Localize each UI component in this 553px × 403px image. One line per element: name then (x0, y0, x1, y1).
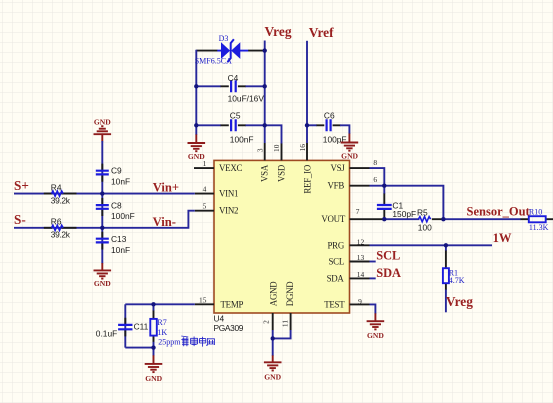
svg-text:VOUT: VOUT (321, 214, 345, 224)
resistor R7 column upper (153, 304, 155, 311)
capacitor C1 pin segments (383, 194, 385, 220)
resistor R4 zigzag (52, 191, 64, 196)
U4 pin 4 stub (195, 193, 214, 195)
svg-text:SDA: SDA (327, 273, 345, 283)
junction C1 bottom / VOUT row (382, 217, 386, 221)
svg-text:Vin-: Vin- (153, 215, 176, 229)
svg-text:GND: GND (145, 374, 162, 383)
U4 pin 8 stub (350, 167, 370, 169)
capacitor C9 plates (96, 171, 109, 175)
junction bus/Vin+ (100, 191, 104, 195)
svg-text:C5: C5 (230, 110, 241, 120)
svg-text:C13: C13 (111, 234, 127, 244)
junction VSJ/VFB node (382, 184, 386, 188)
wire D3 row right segment (248, 50, 265, 52)
U4 pin 5 stub (195, 210, 214, 212)
svg-text:GND: GND (367, 331, 384, 340)
junction VFB corner / VOUT row (441, 217, 445, 221)
svg-text:2: 2 (261, 320, 270, 324)
svg-text:9: 9 (358, 297, 362, 306)
svg-text:10nF: 10nF (111, 245, 130, 255)
svg-text:D3: D3 (219, 34, 229, 43)
svg-text:C8: C8 (111, 200, 122, 210)
resistor R6 zigzag (52, 225, 64, 230)
wire pin8 VSJ to C1 column (370, 168, 385, 186)
svg-text:100: 100 (418, 222, 432, 232)
svg-text:1K: 1K (157, 328, 167, 337)
svg-text:10nF: 10nF (111, 177, 130, 187)
wire Vref vertical to pin 16 (306, 41, 308, 143)
svg-text:GND: GND (94, 117, 111, 126)
svg-text:5: 5 (203, 202, 207, 211)
capacitor C13 pin segments (101, 232, 103, 250)
resistor R10 pin segments (521, 218, 553, 220)
resistor R7 body (150, 319, 157, 336)
resistor R7 pin segments (153, 311, 155, 343)
capacitor C5 pin segments (221, 124, 247, 126)
GND power port (top of filter bus) (94, 117, 112, 141)
svg-text:39.2k: 39.2k (51, 195, 71, 205)
junction AGND/DGND (271, 336, 275, 340)
svg-text:R7: R7 (157, 318, 166, 327)
svg-text:S+: S+ (14, 178, 29, 193)
svg-text:VIN2: VIN2 (219, 206, 238, 216)
GND power port (under C5 left branch) (188, 134, 206, 161)
svg-text:VSA: VSA (259, 164, 269, 182)
resistor R1 body (443, 268, 449, 283)
GND power port (AGND/DGND) (264, 355, 282, 381)
svg-text:8: 8 (373, 158, 377, 167)
junction C4 row / Vreg (263, 84, 267, 88)
svg-text:Vreg: Vreg (265, 24, 292, 39)
U4 pin 13 stub (350, 261, 370, 263)
svg-text:C6: C6 (324, 110, 335, 120)
svg-text:SDA: SDA (376, 266, 401, 280)
U4 pin 3 stub (264, 143, 266, 160)
U4 pin 6 stub (350, 185, 370, 187)
resistor R6 pin segments (44, 227, 77, 229)
junction D3 row / Vreg (263, 48, 267, 52)
U4 pin 12 stub (350, 244, 370, 246)
wire bottom connecting C11 to R7 (125, 347, 153, 349)
svg-text:14: 14 (357, 270, 365, 279)
svg-text:39.2k: 39.2k (51, 230, 71, 240)
capacitor C4 pin segments (221, 85, 247, 87)
svg-text:R5: R5 (417, 208, 428, 218)
op-amp U4 PGA309 body (214, 160, 350, 313)
U4 pin 10 stub (281, 143, 283, 160)
capacitor C9 pin segments (101, 164, 103, 182)
svg-text:150pF: 150pF (392, 209, 416, 219)
svg-text:C4: C4 (228, 73, 239, 83)
capacitor C1 plates (377, 205, 392, 209)
wire AGND stub lower (272, 330, 274, 356)
R7 note 25ppm precision resistor (CJK) (158, 336, 214, 347)
wire pin6 VFB row to right corner (370, 186, 444, 220)
svg-text:11: 11 (280, 320, 289, 327)
svg-text:PRG: PRG (327, 240, 344, 250)
wire pin9 TEST to GND (370, 304, 376, 313)
junction C11/R7 bottom (151, 345, 155, 349)
wire DGND stub lower + jog (273, 330, 291, 338)
svg-text:SCL: SCL (328, 257, 344, 267)
svg-text:GND: GND (188, 152, 205, 161)
U4 pin 1 stub (194, 167, 214, 169)
wire Vreg vertical to pin 3 (264, 41, 266, 144)
svg-text:GND: GND (341, 152, 358, 161)
U4 pin 11 stub (290, 313, 292, 330)
svg-text:1W: 1W (493, 231, 512, 245)
capacitor C11 plates (118, 325, 132, 329)
svg-text:7: 7 (356, 207, 360, 216)
wire left branch vertical (D3/C4/C5 left) (195, 50, 197, 135)
svg-text:25ppm: 25ppm (158, 338, 181, 347)
svg-text:R4: R4 (51, 182, 62, 192)
svg-text:Vreg: Vreg (446, 294, 473, 309)
wire S- row (14, 211, 195, 228)
U4 pin 9 stub (350, 303, 370, 305)
junction bus/Vin- (100, 226, 104, 230)
svg-text:VSD: VSD (276, 164, 286, 182)
svg-text:10uF/16V: 10uF/16V (228, 94, 265, 104)
resistor R4 pin segments (44, 193, 77, 195)
svg-text:4: 4 (203, 185, 207, 194)
U4 pin 15 stub (195, 303, 214, 305)
wire C4 row right (246, 85, 265, 87)
GND power port (under C6) (341, 134, 359, 161)
junction Vref / C6 row (305, 123, 309, 127)
svg-text:GND: GND (94, 279, 111, 288)
svg-text:DGND: DGND (285, 281, 295, 306)
GND power port (TEST) (367, 313, 385, 340)
svg-text:REF_IO: REF_IO (303, 164, 313, 193)
svg-text:VIN1: VIN1 (219, 189, 238, 199)
U4 pin 16 stub (306, 143, 308, 160)
resistor R5 zigzag (418, 217, 430, 222)
wire C1 column upper (383, 186, 385, 194)
wire R7 bottom (153, 342, 155, 356)
svg-text:VSJ: VSJ (330, 163, 345, 173)
svg-text:TEMP: TEMP (221, 300, 244, 310)
capacitor C13 plates (96, 239, 109, 243)
wire pin12 PRG row (1W) (370, 244, 493, 246)
svg-text:4.7K: 4.7K (449, 276, 465, 285)
junction C5 left / GND branch (194, 123, 198, 127)
svg-text:R10: R10 (529, 208, 542, 217)
capacitor C4 plates (231, 80, 236, 92)
GND power port (R7/C11) (145, 355, 163, 383)
resistor R1 column upper (445, 245, 447, 251)
wire VOUT row to R10 (443, 218, 521, 220)
svg-text:U4: U4 (214, 314, 225, 324)
svg-text:13: 13 (357, 253, 365, 262)
diode D3 TVS SMF6.5CA (217, 39, 248, 62)
svg-text:TEST: TEST (324, 300, 345, 310)
capacitor C6 plates (327, 119, 331, 131)
wire TEMP row (125, 303, 195, 305)
wire R1 bottom to Vreg port (445, 290, 447, 313)
junction 1W row / R1 (444, 243, 448, 247)
U4 pin 14 stub (350, 277, 370, 279)
U4 pin 7 stub (350, 218, 370, 220)
wire C6 row left (307, 124, 317, 126)
junction C5 row / Vreg (263, 123, 267, 127)
capacitor C8 pin segments (101, 198, 103, 216)
svg-text:C9: C9 (111, 166, 122, 176)
resistor R10 body (529, 216, 546, 222)
svg-text:VFB: VFB (327, 181, 344, 191)
svg-text:R6: R6 (51, 217, 62, 227)
junction TEMP row / R7 (151, 302, 155, 306)
svg-text:6: 6 (373, 175, 377, 184)
resistor R1 pin segments (445, 251, 447, 291)
capacitor C8 plates (96, 205, 109, 209)
wire S+ row to VIN1 (14, 193, 195, 195)
GND power port (bottom of filter bus) (94, 263, 112, 288)
wire C6 row right + drop to GND (340, 125, 349, 134)
svg-text:VEXC: VEXC (219, 163, 242, 173)
svg-text:AGND: AGND (268, 281, 278, 306)
wire SDA stub (370, 277, 376, 279)
resistor R5 pin segments (370, 218, 444, 220)
svg-text:S-: S- (14, 212, 26, 227)
svg-text:SMF6.5CA: SMF6.5CA (195, 56, 232, 65)
svg-text:SCL: SCL (376, 249, 400, 263)
wire SCL stub (370, 261, 376, 263)
svg-text:100nF: 100nF (111, 211, 135, 221)
svg-text:15: 15 (199, 295, 207, 304)
U4 pin 2 stub (272, 313, 274, 330)
svg-text:Sensor_Out: Sensor_Out (467, 204, 531, 218)
capacitor C5 plates (231, 119, 236, 131)
wire D3 row left segment (196, 50, 217, 52)
svg-text:GND: GND (264, 372, 281, 381)
svg-text:3: 3 (255, 148, 264, 152)
svg-text:16: 16 (298, 144, 307, 152)
wire C5 row left (196, 124, 221, 126)
svg-text:PGA309: PGA309 (214, 323, 244, 333)
svg-text:0.1uF: 0.1uF (96, 328, 117, 338)
wire C5 row right to pin10 drop (246, 125, 282, 143)
svg-text:Vref: Vref (309, 25, 334, 40)
svg-text:Vin+: Vin+ (153, 180, 179, 194)
svg-text:11.3K: 11.3K (529, 223, 549, 232)
wire C11 branch vertical (124, 304, 126, 347)
svg-text:100nF: 100nF (230, 134, 254, 144)
wire pin7 VOUT row (384, 218, 419, 220)
capacitor C11 pin segments (124, 318, 126, 337)
svg-text:10: 10 (272, 144, 281, 152)
svg-text:C11: C11 (134, 322, 149, 332)
svg-text:12: 12 (357, 237, 365, 246)
capacitor C6 pin segments (317, 124, 341, 126)
wire filter bus vertical (101, 141, 103, 264)
wire C4 row left (196, 85, 221, 87)
junction C4/C5 left branch (194, 84, 198, 88)
